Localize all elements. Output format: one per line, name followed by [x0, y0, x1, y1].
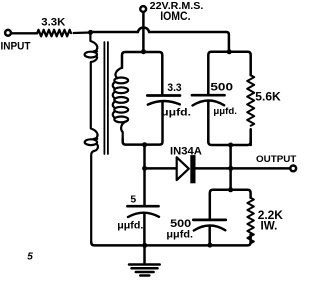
resistor 3.3K [37, 30, 71, 37]
svg-text:3.3: 3.3 [167, 82, 181, 94]
wire input to resistor [12, 32, 37, 34]
svg-text:500: 500 [170, 218, 191, 230]
right pair bottom bus [208, 138, 250, 145]
svg-text:INPUT: INPUT [1, 40, 31, 52]
junction dot right pair top [227, 49, 232, 54]
svg-text:IOMC.: IOMC. [160, 10, 190, 23]
junction dot right pair bottom [228, 143, 233, 148]
resistor 5.6K zigzag [247, 75, 254, 126]
wire tank bottom down through diode node to capacitor 5uufd [143, 145, 146, 205]
svg-text:μμfd.: μμfd. [213, 106, 237, 116]
diode 1N34A triangle [177, 157, 189, 180]
capacitor 5uufd curved plate [128, 213, 159, 217]
junction dot diode anode [142, 166, 147, 171]
capacitor 500uufd lower curved plate [194, 225, 226, 230]
wire diode anode row [145, 167, 177, 170]
svg-text:5: 5 [130, 195, 136, 206]
capacitor 5uufd top flat plate [128, 205, 159, 208]
wire tank top bus [122, 52, 162, 94]
capacitor 500uufd bottom lead [207, 101, 210, 142]
junction dot ground node [142, 243, 147, 248]
transformer core [104, 42, 108, 154]
junction dot tank top [141, 49, 146, 54]
capacitor 500uufd lower bottom lead [208, 226, 211, 245]
junction dot bottom pair top [228, 187, 233, 192]
capacitor 500uufd top flat plate [192, 94, 225, 97]
junction dot output node [228, 166, 233, 171]
svg-text:μμfd.: μμfd. [166, 229, 193, 240]
capacitor 3.3uufd bottom lead and tank bottom bus [123, 102, 163, 145]
input terminal [5, 30, 11, 36]
capacitor 5uufd bottom lead [143, 213, 146, 244]
capacitor 500uufd curved plate [193, 100, 225, 105]
svg-text:3.3K: 3.3K [41, 17, 65, 29]
output terminal [290, 166, 296, 172]
right pair top bus [208, 52, 250, 94]
svg-text:5: 5 [27, 252, 33, 263]
diode 1N34A cathode bar [190, 155, 195, 183]
svg-text:μμfd.: μμfd. [117, 220, 143, 231]
wire node A to right branch (with hop over feed wire) [91, 27, 229, 50]
bottom pair top bus [210, 190, 251, 219]
svg-text:μμfd.: μμfd. [161, 107, 191, 118]
terminal 22V.R.M.S. [140, 6, 146, 12]
wire terminal down to tank [142, 12, 145, 50]
wire right pair to bottom pair through output node [229, 145, 232, 190]
wire resistor to node A [74, 31, 91, 34]
transformer primary winding [85, 33, 98, 242]
junction dot tank bottom [142, 142, 147, 147]
bottom ground rail [91, 235, 250, 246]
svg-text:500: 500 [210, 81, 233, 93]
resistor 5.6K bottom lead [249, 129, 252, 145]
capacitor 3.3uufd curved plate [148, 101, 180, 105]
resistor 2.2K zigzag [247, 198, 253, 244]
svg-text:IW.: IW. [261, 220, 278, 233]
wire diode to output terminal [196, 167, 290, 170]
ground symbol [129, 245, 160, 275]
node A junction dot [88, 30, 93, 35]
svg-text:IN34A: IN34A [170, 146, 202, 158]
capacitor 500uufd lower flat plate [193, 219, 226, 222]
junction dot bottom cap at rail [207, 243, 212, 248]
svg-text:OUTPUT: OUTPUT [256, 153, 297, 164]
transformer secondary coil [113, 68, 128, 139]
svg-text:5.6K: 5.6K [255, 89, 281, 103]
capacitor 3.3uufd top flat plate [147, 94, 180, 97]
